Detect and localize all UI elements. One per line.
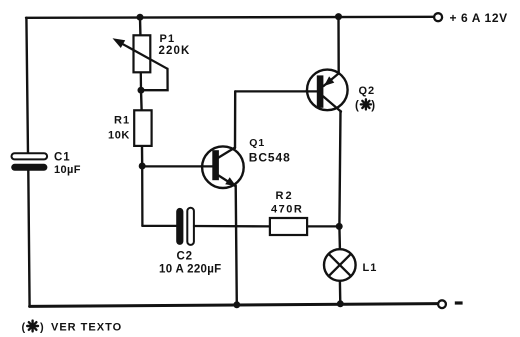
wire to C2 left plate [142, 225, 176, 227]
svg-text:10 A 220µF: 10 A 220µF [159, 263, 221, 275]
wire R1 to base node [141, 147, 144, 166]
node junction bottom rail / Q1 emitter [233, 301, 240, 308]
svg-text:R2: R2 [276, 190, 294, 202]
svg-text:R1: R1 [114, 115, 130, 127]
wire C2 right plate to R2 (crosses Q1 emitter line) [194, 225, 269, 228]
wire left vertical (top rail to C1) [26, 18, 28, 155]
wire node to L1 [338, 226, 341, 249]
node junction top rail / P1 [137, 14, 144, 21]
terminal + 6 A 12V [434, 11, 508, 25]
svg-text:P1: P1 [160, 33, 176, 45]
note (star) VER TEXTO [22, 321, 123, 334]
svg-text:): ) [371, 100, 375, 112]
svg-text:(: ( [22, 322, 26, 334]
svg-text:Q1: Q1 [249, 137, 265, 149]
wire Q1 emitter down to bottom rail [236, 186, 237, 306]
wire top rail to P1 [139, 17, 142, 34]
lamp L1 [324, 249, 377, 281]
svg-text:220K: 220K [159, 45, 191, 57]
svg-text:L1: L1 [363, 262, 378, 274]
resistor R2 470R [270, 190, 307, 235]
wire Q1 collector to Q2 base [235, 90, 317, 92]
resistor R1 10K [108, 110, 152, 146]
wire Q1 collector up [234, 91, 237, 148]
wire R2 to Q2 collector node [308, 225, 339, 227]
transistor Q2 (PNP) [306, 70, 375, 113]
node junction bottom rail / L1 [337, 300, 344, 307]
wire Q2 collector down to node [339, 111, 340, 226]
wire P1 wiper to lower node [141, 69, 167, 90]
svg-text:C2: C2 [177, 250, 193, 262]
svg-text:VER TEXTO: VER TEXTO [51, 322, 122, 334]
svg-text:+ 6 A 12V: + 6 A 12V [450, 11, 508, 25]
node junction P1/R1 [138, 87, 145, 94]
wire left vertical (C1 to bottom rail) [28, 171, 29, 307]
wire base node to Q1 base [142, 165, 212, 167]
wire Q2 emitter up to top rail [337, 17, 340, 74]
wire base node down to C2 [141, 166, 143, 226]
wire bottom rail [30, 304, 438, 307]
node junction R1/Q1 base/C2 [139, 163, 146, 170]
potentiometer P1 220K [113, 33, 191, 73]
svg-text:Q2: Q2 [359, 85, 376, 97]
svg-text:10K: 10K [108, 129, 130, 141]
wire node to R1 [140, 90, 143, 109]
wire top rail [26, 17, 434, 18]
svg-text:): ) [40, 322, 44, 334]
svg-text:C1: C1 [54, 151, 71, 163]
transistor Q1 BC548 [201, 137, 291, 188]
terminal minus [438, 300, 462, 308]
capacitor C1 [11, 151, 81, 176]
wire L1 to bottom rail [339, 281, 342, 304]
svg-text:10µF: 10µF [54, 164, 81, 176]
node junction R2/L1/Q2 collector [336, 223, 343, 230]
svg-text:BC548: BC548 [249, 150, 291, 164]
node junction top rail / Q2 [335, 13, 342, 20]
capacitor C2 10 A 220uF [159, 208, 221, 276]
svg-text:(: ( [355, 100, 359, 112]
svg-text:470R: 470R [271, 204, 303, 216]
wire P1 bottom to node [140, 73, 142, 90]
